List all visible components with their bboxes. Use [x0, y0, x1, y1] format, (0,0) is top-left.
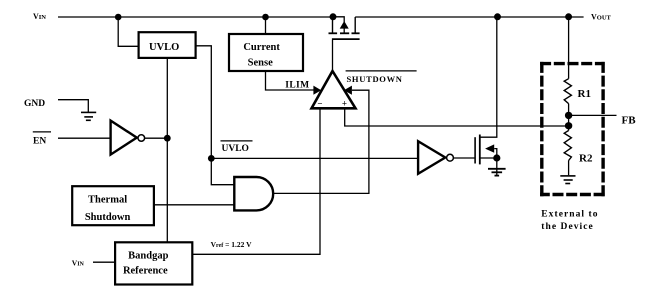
svg-text:UVLO: UVLO — [222, 144, 249, 154]
svg-text:VIN: VIN — [33, 12, 46, 21]
svg-text:Bandgap: Bandgap — [128, 251, 168, 262]
svg-text:External to: External to — [541, 210, 598, 220]
svg-text:GND: GND — [24, 99, 45, 109]
svg-text:R1: R1 — [578, 88, 591, 100]
svg-text:Current: Current — [243, 42, 280, 53]
svg-text:the Device: the Device — [541, 222, 593, 232]
svg-text:Sense: Sense — [248, 58, 273, 69]
svg-text:R2: R2 — [579, 153, 593, 165]
svg-text:SHUTDOWN: SHUTDOWN — [347, 74, 403, 84]
svg-text:Thermal: Thermal — [88, 195, 127, 206]
svg-text:−: − — [317, 99, 322, 109]
svg-text:ILIM: ILIM — [285, 80, 309, 90]
svg-text:VOUT: VOUT — [591, 13, 612, 22]
svg-text:Shutdown: Shutdown — [85, 212, 131, 223]
svg-text:Reference: Reference — [123, 266, 168, 277]
svg-text:EN: EN — [33, 136, 46, 146]
svg-text:FB: FB — [622, 115, 637, 127]
svg-text:+: + — [342, 99, 347, 109]
svg-text:UVLO: UVLO — [149, 42, 179, 53]
